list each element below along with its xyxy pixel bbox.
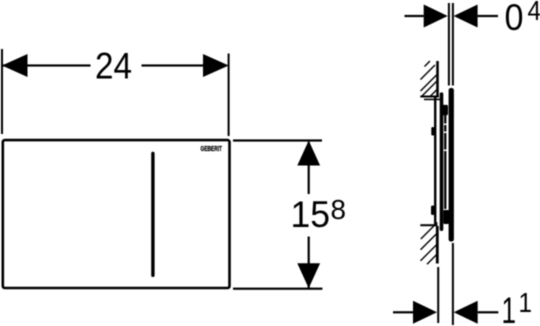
front view: GEBERIT logo (201, 144, 223, 153)
dimension 1/1: left arrowhead (413, 301, 437, 324)
side view: lower latch block (443, 210, 449, 224)
dimension 24: left arrowhead (2, 54, 28, 77)
dimension 24: dimension line left segment (2, 64, 91, 66)
side view: flush plate (side profile) (449, 88, 454, 242)
dimension 15/8: top extension line (233, 139, 322, 141)
dimension 24: dimension line right segment (142, 64, 204, 66)
dimension 15/8: dimension line lower segment (308, 237, 310, 289)
svg-text:1: 1 (502, 290, 517, 326)
dimension 15/8: dimension line upper segment (308, 142, 310, 194)
svg-text:8: 8 (331, 194, 347, 225)
side view: top frame flange line (424, 99, 442, 101)
svg-text:4: 4 (528, 0, 540, 26)
side view: upper latch block (442, 105, 448, 115)
dimension 0/4: left tail line (405, 15, 424, 17)
side view: top wall face line (436, 61, 439, 98)
dimension 0/4: left extension line (448, 3, 450, 86)
dimension 15/8: down arrowhead (297, 263, 320, 288)
front view: flush plate outline (3, 140, 230, 288)
dimension 15/8: value label (291, 194, 347, 235)
side view: bottom wall face line (436, 226, 439, 264)
dimension 0/4: right extension line (452, 3, 454, 86)
side view: carrier frame bar (440, 92, 444, 231)
side view: top shelf line (420, 96, 439, 98)
dimension 0/4: right arrowhead (454, 5, 478, 28)
dimension 0/4: value label (505, 0, 540, 38)
svg-text:1: 1 (519, 287, 533, 318)
svg-text:15: 15 (291, 194, 331, 235)
side view: bottom shelf line (420, 224, 437, 226)
side view: actuator rod (444, 115, 447, 209)
dimension 1/1: right tail line (478, 311, 499, 313)
dimension 24: value label (95, 46, 132, 87)
dimension 24: right arrowhead (203, 54, 229, 77)
side view: bottom wall hatching (421, 223, 438, 265)
side view: lower wall anchor lug (431, 206, 434, 216)
dimension 1/1: left tail line (393, 311, 413, 313)
side view: upper wall anchor lug (431, 127, 434, 136)
svg-text:GEBERIT: GEBERIT (201, 144, 223, 153)
dimension 0/4: right tail line (478, 15, 498, 17)
dimension 1/1: value label (502, 287, 533, 326)
dimension 0/4: left arrowhead (424, 5, 448, 28)
side view: frame vertical profile line (434, 97, 436, 225)
svg-text:24: 24 (95, 46, 132, 87)
dimension 1/1: left extension line (437, 267, 439, 323)
dimension 15/8: up arrowhead (297, 141, 320, 166)
dimension 15/8: bottom extension line (233, 288, 322, 290)
side view: top wall hatching (421, 61, 438, 96)
svg-text:0: 0 (505, 0, 524, 38)
dimension 1/1: right arrowhead (454, 301, 478, 324)
dimension 24: right extension line (228, 54, 230, 137)
dimension 1/1: right extension line (452, 243, 454, 325)
dimension 24: left extension line (1, 49, 3, 134)
front view: button divider line (151, 152, 154, 277)
